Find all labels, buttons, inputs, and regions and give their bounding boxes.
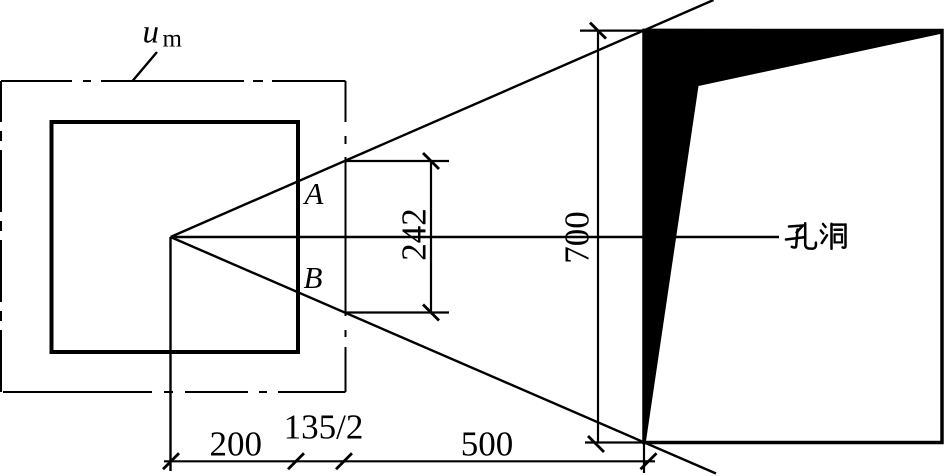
svg-text:B: B: [304, 260, 323, 295]
svg-text:700: 700: [558, 211, 597, 264]
svg-text:242: 242: [395, 208, 434, 261]
svg-text:m: m: [163, 26, 183, 53]
svg-text:500: 500: [461, 425, 514, 464]
svg-text:200: 200: [209, 425, 262, 464]
svg-text:A: A: [303, 176, 325, 211]
svg-text:135/2: 135/2: [284, 408, 364, 447]
svg-text:u: u: [143, 15, 160, 51]
